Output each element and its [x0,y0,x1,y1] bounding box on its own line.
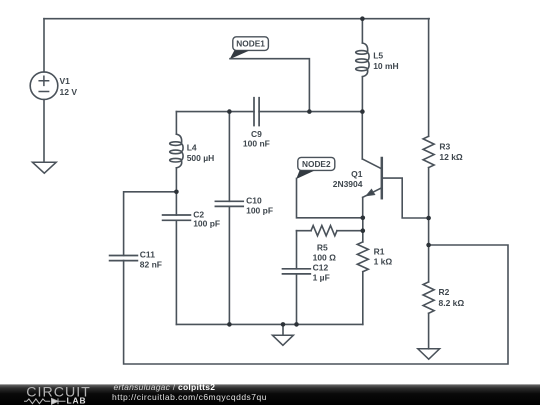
svg-text:ertansuluagac / colpitts2: ertansuluagac / colpitts2 [114,382,216,392]
node NODE2 flag [296,157,335,179]
svg-text:C9: C9 [251,129,262,139]
wire R2 top lead [428,245,430,282]
node dot emitter [361,216,366,221]
node dot L5 bottom [360,109,365,114]
inductor L5 [356,19,369,112]
node NODE1 flag [230,37,269,59]
wire V1 top stub [43,19,45,72]
node dot L5 top [360,16,365,21]
node dot ground mid [281,322,286,327]
svg-text:NODE2: NODE2 [302,159,331,169]
resistor R2 [423,282,434,313]
svg-text:100 nF: 100 nF [243,139,270,149]
resistor R1 [357,242,368,272]
wire top rail [44,18,429,20]
svg-text:R5: R5 [317,243,328,253]
svg-text:8.2 kΩ: 8.2 kΩ [439,298,465,308]
capacitor C9 [254,98,259,126]
wire C10 branch top [228,112,230,202]
wire V1 bottom stub [43,100,45,163]
label C12 value [313,262,330,282]
capacitor C2 [163,215,191,220]
svg-text:Q1: Q1 [351,169,363,179]
label L4 value [187,143,215,163]
label C10 value [246,196,273,216]
wire C12 branch bottom [296,274,298,325]
capacitor C11 [110,256,138,261]
label V1 value [60,76,78,97]
node dot C12 bottom [294,322,299,327]
svg-text:12 kΩ: 12 kΩ [439,152,463,162]
node dot C10 bottom [227,322,232,327]
capacitor C12 [283,269,311,274]
node dot C10/rail [227,109,232,114]
svg-text:R1: R1 [374,247,385,257]
wire mid rail (left of C9) [176,111,254,113]
node dot L4 bottom [174,190,179,195]
label Q1 value [333,169,363,189]
svg-text:82 nF: 82 nF [140,259,162,269]
transistor Q1 [362,112,382,218]
svg-text:1 kΩ: 1 kΩ [374,257,393,267]
svg-text:R3: R3 [439,141,450,151]
wire NODE1 to C9 junction [230,59,309,112]
node dot NODE1/rail [307,109,312,114]
wire mid rail (right of C9) [259,111,362,113]
svg-text:L5: L5 [373,51,383,61]
svg-text:NODE1: NODE1 [236,39,265,49]
svg-text:LAB: LAB [67,395,87,405]
logo resistor-diode-LAB line [24,398,66,404]
wire R3 top lead [428,19,430,137]
wire bottom rail [176,323,362,325]
label R5 value [313,243,337,263]
svg-text:1 µF: 1 µF [313,272,330,282]
label C9 value [243,129,270,149]
label C11 value [140,249,162,269]
svg-text:L4: L4 [187,143,197,153]
svg-text:R2: R2 [439,287,450,297]
wire R1 bottom lead [362,272,364,325]
wire R3 bottom lead [428,168,430,245]
wire R1 top lead [362,218,364,242]
resistor R3 [423,136,434,167]
wire C10 branch bottom [228,206,230,324]
wire C11 to outer bottom loop [124,245,508,364]
svg-text:C11: C11 [140,249,155,259]
wire C12 branch top [296,231,298,269]
label C2 value [193,210,220,229]
node dot base/R3 [426,216,431,221]
wire L4 to C2 [175,192,177,215]
wire Q1 base to R3 branch [383,178,429,218]
wire NODE2 to emitter rail [297,178,363,217]
svg-text:100 pF: 100 pF [246,206,273,216]
svg-text:10 mH: 10 mH [373,61,399,71]
svg-text:C10: C10 [246,196,262,206]
ground mid [272,324,293,345]
label L5 value [373,51,399,71]
ground for V1 [32,162,56,173]
voltage source V1 [30,72,58,100]
ground for R2 [418,349,440,359]
label R3 value [439,141,463,162]
resistor R5 [297,226,363,236]
svg-text:12 V: 12 V [60,87,78,97]
label R2 value [439,287,465,308]
svg-text:V1: V1 [60,76,71,86]
wire C2 to bottom rail [175,220,177,324]
label R1 value [374,247,393,267]
svg-text:C12: C12 [313,262,329,272]
svg-text:100 Ω: 100 Ω [313,252,337,262]
logo CIRCUIT [26,385,91,401]
wire R2 bottom lead [428,313,430,349]
wire to C11 branch [124,192,177,256]
footer bar [0,384,540,405]
svg-text:2N3904: 2N3904 [333,179,363,189]
node dot R2 top [426,243,431,248]
capacitor C10 [215,201,243,206]
svg-text:100 pF: 100 pF [193,219,220,229]
inductor L4 [170,112,183,192]
svg-text:http://circuitlab.com/c6mqycqd: http://circuitlab.com/c6mqycqdds7qu [112,392,267,402]
svg-text:500 µH: 500 µH [187,153,215,163]
node dot R5/R1 [361,228,366,233]
